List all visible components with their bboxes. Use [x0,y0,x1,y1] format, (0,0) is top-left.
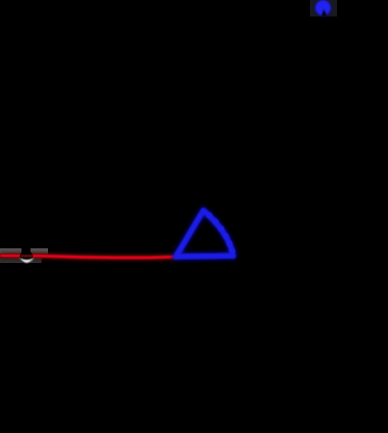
red line underglow [0,256,176,258]
triangle glow [176,211,233,257]
gray artifact band below line [0,258,42,263]
gray artifact block left-top B [31,248,49,253]
blue ball (top right) [316,1,330,15]
red drawn line [0,256,176,258]
blue ball (top right) glow [315,0,330,15]
notch in blue ball [321,9,326,16]
triangle stroke [176,211,233,257]
artifact block around blue ball [310,0,337,17]
black ball over line [20,250,33,263]
white crescent highlight [20,258,34,263]
gray artifact block left-top A [0,248,22,253]
scallop dots on right edge [207,213,235,254]
dark red line over ball [21,255,33,258]
